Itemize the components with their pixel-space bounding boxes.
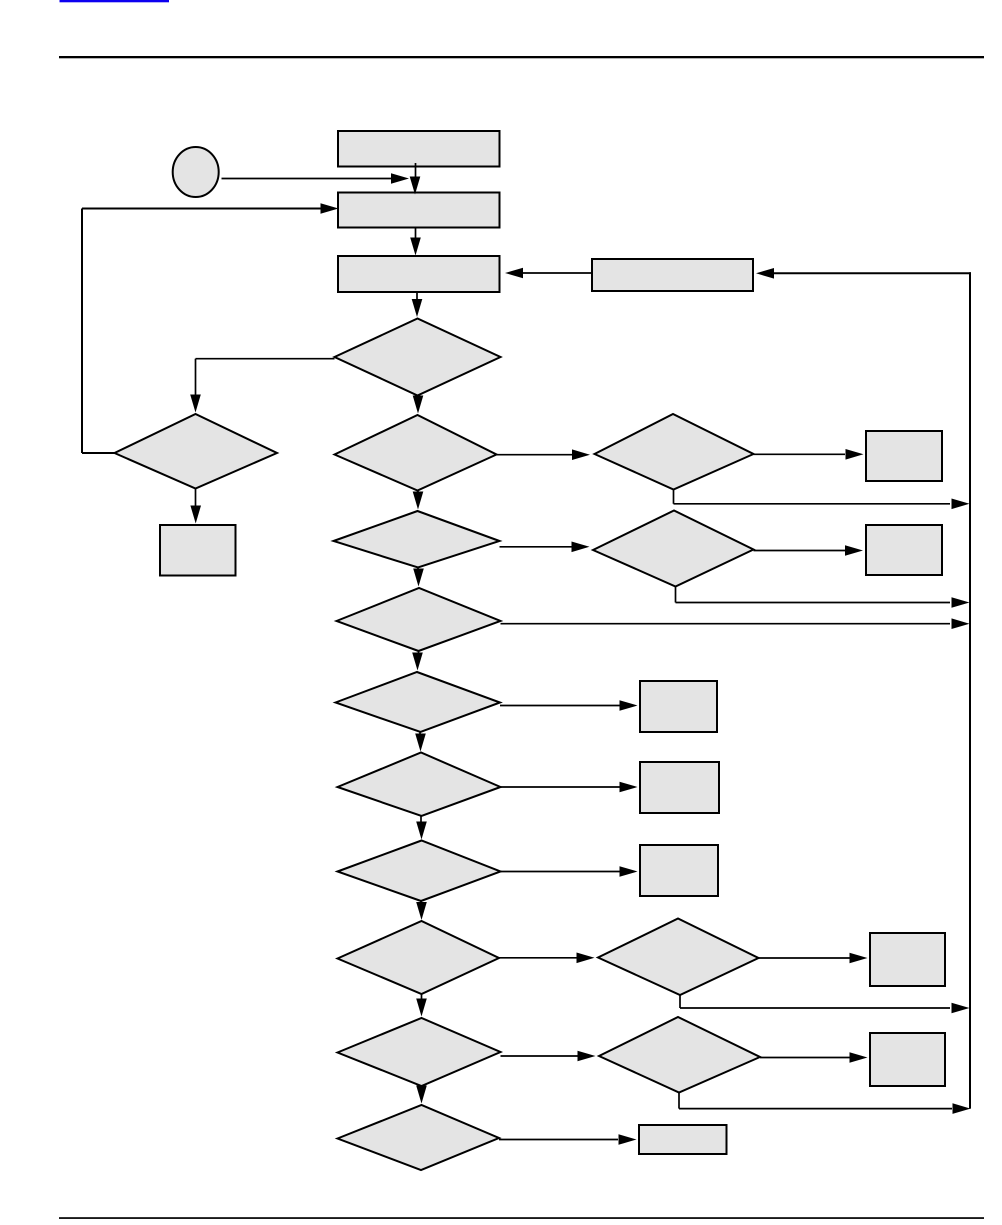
wire D5 to D6 [500,546,573,548]
process box P12 (right of D14) [870,1033,945,1086]
wire loopback stub from D2 left vertex [82,452,115,454]
arrowhead into P8 left edge [620,700,638,711]
wire D14 bypass vertical [678,1093,680,1109]
wire D6 bypass vertical [675,587,677,603]
arrowhead into D13 top [416,999,427,1017]
arrowhead into P13 left edge [619,1134,637,1145]
wire spine D1 to D3 [417,396,419,399]
wire D9 to P9 [501,786,621,788]
wire D14 to P12 [760,1057,850,1059]
wire spine P2 to P3 [415,228,417,241]
wire D4 bypass vertical [673,490,675,504]
arrowhead into P2 left edge [321,203,339,214]
arrowhead into P5 top [190,506,201,524]
wire D14 bypass horizontal to trunk [679,1108,952,1110]
decision diamond D14 [599,1017,760,1093]
wire trunk top horizontal to P4 [774,272,971,274]
decision diamond D10 [338,841,501,902]
wire spine D8 to D9 [419,732,421,735]
wire D12 bypass vertical [679,995,681,1008]
process box P11 (right of D12) [870,933,945,986]
process box P4 (feedback, right of P3) [592,259,753,291]
arrowhead into P2 [410,177,421,195]
decision diamond D7 [337,588,501,651]
arrowhead into P10 left edge [620,866,638,877]
wire trunk vertical (far right) [969,272,971,1108]
arrowhead into D2 top [190,395,201,413]
decision diamond D2 (left column) [115,414,278,489]
wire D12 to P11 [759,957,851,959]
wire D13 to D14 [501,1055,579,1057]
wire D4 bypass horizontal to trunk [674,503,951,505]
wire D11 to D12 [499,957,577,959]
wire spine D9 to D10 [420,816,422,822]
arrowhead into D5 top [413,492,424,510]
arrowhead into D4 left [572,449,590,460]
process box P5 (below D2) [160,525,236,576]
process box P10 (right of D10) [640,845,718,896]
decision diamond D5 [334,511,500,568]
process box P6 (right of D4) [866,431,942,481]
arrowhead D14 bypass into trunk [953,1103,971,1114]
arrowhead into D10 top [416,822,427,840]
decision diamond D1 [335,319,501,396]
arrowhead into P12 left edge [850,1052,868,1063]
wire D2 to P5 [195,489,197,507]
wire D1 left exit vertical [195,359,197,396]
wire P4 to P3 [523,272,592,274]
wire spine D10 to D11 [420,901,422,904]
wire loopback vertical [81,209,83,454]
process box P3 [338,256,500,292]
arrowhead into P11 left edge [850,953,868,964]
arrowhead into D12 left [577,953,595,964]
decision diamond D11 [338,921,500,994]
process box P9 (right of D9) [640,762,719,813]
arrowhead into P3 [410,238,421,256]
arrowhead D4 bypass into trunk [952,499,970,510]
wire spine D5 to D7 [417,568,419,571]
arrowhead into D9 top [415,734,426,752]
wire spine D3 to D5 [417,491,419,495]
arrowhead into D6 left [572,542,590,553]
arrowhead D12 bypass into trunk [952,1003,970,1014]
process box P13 (right of D15, wide) [639,1125,727,1154]
wire A1 to spine junction [222,178,393,180]
arrowhead into D1 top [412,299,423,317]
wire spine P1 to P2 [415,163,417,180]
process box P1 (top) [338,131,500,167]
process box P7 (right of D6) [866,525,942,575]
wire spine D13 to D15 [421,1086,423,1089]
decision diamond D4 [595,414,754,490]
top horizontal rule [59,56,984,58]
wire D12 bypass horizontal to trunk [680,1007,950,1009]
decision diamond D9 [338,753,501,817]
wire D1 left exit horizontal [196,358,335,360]
wire D6 to P7 [754,550,846,552]
arrowhead into D15 top [416,1086,427,1104]
arrowhead into P7 left edge [845,545,863,556]
arrowhead D6 bypass into trunk [952,597,970,608]
wire D4 to P6 [754,453,846,455]
wire D3 to D4 [497,454,574,456]
arrowhead into D8 top [412,653,423,671]
arrowhead into D3 top [413,396,424,414]
wire D7 bypass to trunk [501,623,951,625]
wire D10 to P10 [501,871,621,873]
decision diamond D12 [598,919,759,996]
arrowhead into D7 top [413,569,424,587]
wire spine D11 to D13 [421,994,423,1000]
arrowhead into P6 left edge [846,449,864,460]
arrowhead A1 wire [391,173,409,184]
decision diamond D15 [338,1105,500,1170]
start terminator circle A1 [173,147,219,197]
arrowhead into P9 left edge [620,782,638,793]
decision diamond D6 [593,511,754,587]
decision diamond D8 [336,672,501,732]
arrowhead into P3 right edge [505,268,523,279]
wire spine P3 to D1 [416,292,418,302]
wire spine D7 to D8 [418,651,420,654]
bottom horizontal rule [59,1217,984,1219]
wire D15 to P13 [499,1139,618,1141]
arrowhead into D11 top [416,902,427,920]
wire D8 to P8 [500,705,620,707]
process box P2 [338,193,500,228]
wire D6 bypass horizontal to trunk [676,602,951,604]
decision diamond D3 [335,415,497,491]
decision diamond D13 [338,1018,501,1086]
arrowhead D7 bypass into trunk [952,618,970,629]
arrowhead into D14 left [578,1051,596,1062]
arrowhead into P4 right edge [756,268,774,279]
hyperlink underline (top-left, text clipped above page) [60,0,170,2]
process box P8 (right of D8) [640,681,717,732]
wire loopback horizontal into P2 [82,208,321,210]
